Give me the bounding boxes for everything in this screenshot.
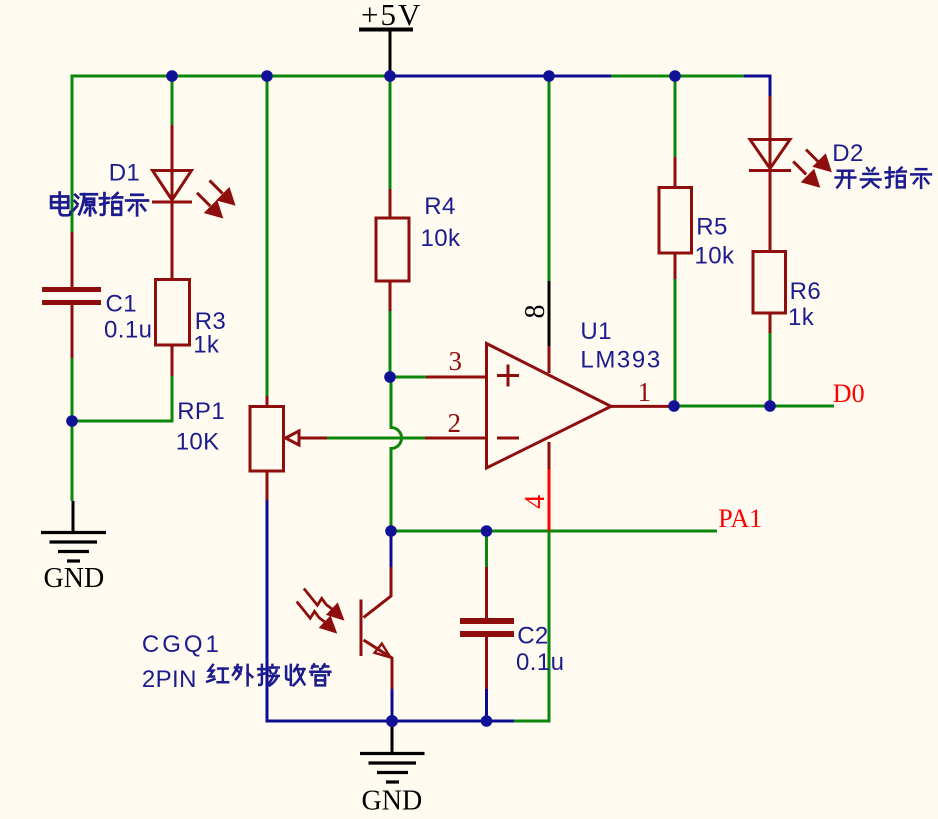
svg-text:10k: 10k bbox=[421, 225, 461, 252]
svg-text:GND: GND bbox=[362, 786, 423, 817]
ground GND2 bbox=[360, 721, 425, 782]
svg-text:8: 8 bbox=[520, 305, 551, 319]
wire: bottom green corner up to PA1 line bbox=[514, 531, 549, 721]
node rail-pin8 bbox=[543, 70, 555, 82]
junction node dots bbox=[66, 70, 776, 727]
wire: node to pin 3 stub green bbox=[390, 376, 426, 379]
potentiometer RP1 bbox=[250, 396, 327, 500]
phototransistor CGQ1 bbox=[361, 567, 392, 689]
svg-text:C2: C2 bbox=[517, 623, 548, 650]
svg-text:CGQ1: CGQ1 bbox=[142, 631, 222, 658]
wire: C2 top green stub bbox=[485, 531, 488, 567]
node rail-D1 bbox=[166, 70, 178, 82]
wire: R6 bottom green to output node bbox=[769, 333, 772, 406]
node rail-+5V bbox=[384, 70, 396, 82]
R3 bottom lead bbox=[171, 345, 174, 376]
svg-text:PA1: PA1 bbox=[718, 504, 762, 533]
LED D1 bbox=[152, 125, 192, 280]
capacitor C2 bbox=[460, 618, 514, 637]
resistor R4 bbox=[376, 189, 409, 311]
resistor R3 bbox=[156, 280, 190, 346]
node bottom-GND2 bbox=[386, 715, 398, 727]
capacitor C1 bbox=[42, 287, 101, 305]
CGQ1 incident light arrows bbox=[297, 589, 342, 632]
wire: top rail navy right corner down to D2 bbox=[744, 76, 770, 96]
wire: C1 bottom green to node bbox=[71, 358, 74, 421]
LED D2 bbox=[749, 96, 791, 251]
svg-text:D2: D2 bbox=[832, 140, 863, 167]
C2 leads bbox=[485, 567, 488, 689]
node PA1-collector bbox=[385, 525, 397, 537]
wire: C2 bottom navy stub bbox=[485, 689, 488, 721]
svg-text:D0: D0 bbox=[833, 379, 865, 408]
wire: CGQ1 emitter navy stub bbox=[391, 689, 394, 721]
svg-text:10K: 10K bbox=[176, 429, 220, 456]
wire: top rail navy middle bbox=[390, 75, 611, 78]
node rail-RP1 bbox=[261, 70, 273, 82]
wire: CGQ1 collector navy stub bbox=[390, 531, 393, 567]
wire: node to R3 bottom bbox=[72, 376, 172, 421]
node left C1/GND bbox=[66, 415, 78, 427]
wire: top rail green left (+5V net) bbox=[72, 75, 390, 78]
U1 pin 4 lead (power, maroon stub) bbox=[548, 442, 551, 469]
svg-text:0.1u: 0.1u bbox=[516, 649, 564, 676]
wire: RP1 wiper green segment bbox=[327, 437, 425, 440]
svg-text:LM393: LM393 bbox=[580, 346, 661, 373]
wire: pin8 branch green from rail bbox=[548, 76, 551, 281]
wire: R4 branch green stub from rail bbox=[389, 76, 392, 189]
wire: pin4 red net (LM393 GND pin) bbox=[548, 469, 551, 531]
svg-text:R4: R4 bbox=[424, 193, 455, 220]
D1 emission arrows bbox=[197, 180, 233, 216]
svg-text:U1: U1 bbox=[580, 318, 611, 345]
svg-text:2: 2 bbox=[448, 408, 462, 438]
svg-text:C1: C1 bbox=[106, 290, 137, 317]
wire: R5 bottom green to output node bbox=[674, 279, 677, 406]
C1 leads bbox=[71, 232, 74, 358]
resistor R6 bbox=[753, 252, 786, 334]
node pin3/R4 bbox=[384, 371, 396, 383]
node output-R6 bbox=[764, 400, 776, 412]
svg-text:0.1u: 0.1u bbox=[104, 317, 152, 344]
wire: output D0 green bbox=[674, 405, 834, 408]
U1 pin 8 lead (power) bbox=[548, 281, 551, 346]
D2 note 开关指示 bbox=[836, 168, 931, 188]
D1 note 电源指示 bbox=[51, 193, 148, 216]
wire: left vertical green from rail to C1 bbox=[71, 75, 74, 233]
wire: R5 branch green stub from rail bbox=[674, 76, 677, 157]
ground GND1 bbox=[41, 501, 106, 561]
svg-text:RP1: RP1 bbox=[177, 398, 225, 425]
svg-text:1k: 1k bbox=[788, 304, 815, 331]
svg-text:+5V: +5V bbox=[361, 0, 422, 32]
D2 emission arrows bbox=[793, 150, 829, 186]
+5V power symbol bbox=[359, 30, 413, 77]
wire: D1 branch green stub from rail bbox=[171, 76, 174, 125]
wire: left node down to GND1 bbox=[71, 421, 74, 501]
svg-text:1: 1 bbox=[638, 377, 652, 407]
node rail-R5 bbox=[669, 70, 681, 82]
svg-text:2PIN: 2PIN bbox=[142, 666, 197, 693]
svg-text:D1: D1 bbox=[109, 160, 140, 187]
svg-text:4: 4 bbox=[520, 495, 551, 509]
wire: R4 bottom green to node pin3 bbox=[389, 311, 392, 377]
wire: PA1 horizontal green bbox=[391, 530, 717, 533]
wire: RP1 branch green from rail bbox=[266, 76, 269, 396]
node PA1-C2 bbox=[481, 525, 493, 537]
svg-text:R5: R5 bbox=[696, 213, 727, 240]
svg-text:3: 3 bbox=[449, 346, 463, 376]
resistor R5 bbox=[659, 157, 692, 279]
svg-text:1k: 1k bbox=[193, 331, 220, 358]
op-amp U1 LM393 bbox=[425, 344, 674, 469]
wire: vertical green pin3 node down to PA1 node with hop over wiper wire bbox=[391, 377, 402, 531]
svg-text:GND: GND bbox=[44, 563, 105, 594]
wire: top rail green right bbox=[611, 75, 744, 78]
svg-text:R6: R6 bbox=[790, 278, 821, 305]
wire: RP1 bottom navy down and bottom rail bbox=[267, 500, 514, 721]
svg-text:10k: 10k bbox=[695, 242, 735, 269]
node output-R5 bbox=[668, 400, 680, 412]
node bottom-C2 bbox=[481, 715, 493, 727]
